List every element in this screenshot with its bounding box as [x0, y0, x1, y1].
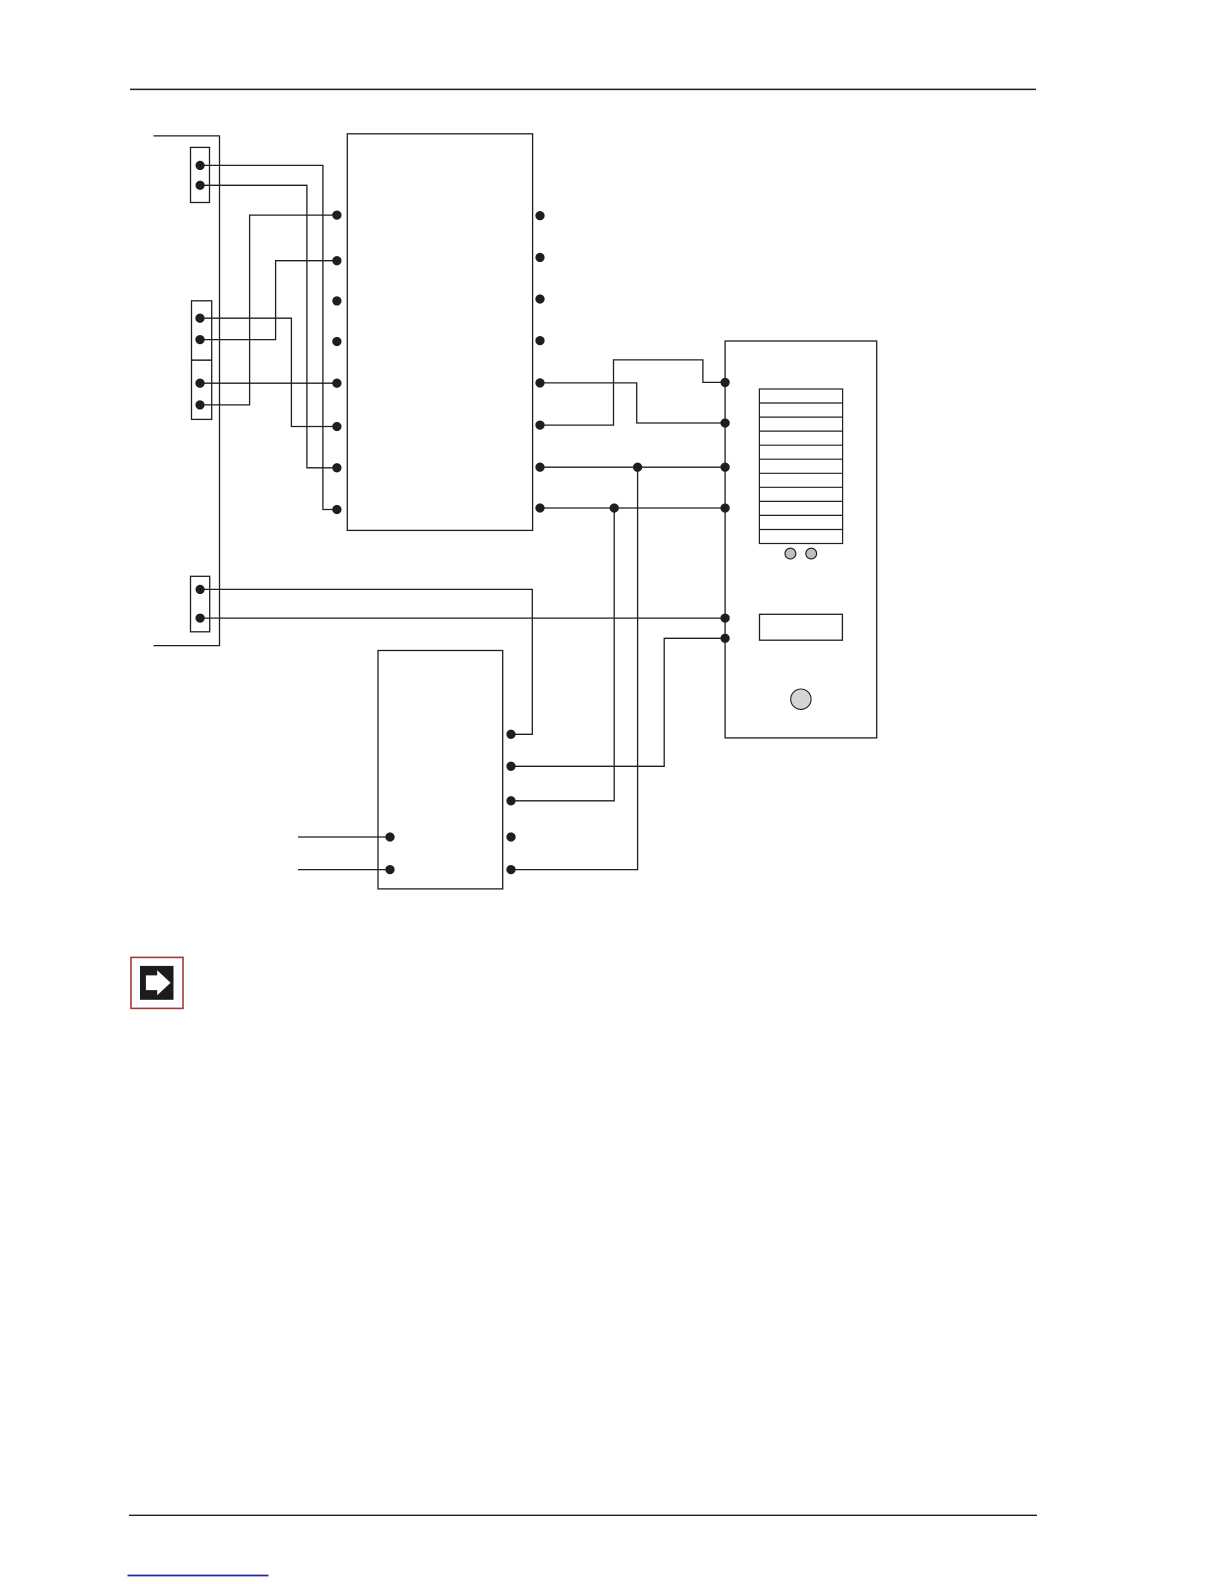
- panel pin P1: [721, 378, 729, 386]
- indicator LED 1: [785, 548, 796, 559]
- wiring bus bracket: [154, 136, 220, 646]
- pin J2-2: [196, 336, 204, 344]
- indicator LED 2: [806, 548, 817, 559]
- module U1: [347, 134, 532, 531]
- U1 pin L8: [333, 506, 341, 514]
- footer link underline: [128, 1575, 269, 1577]
- U1 pin L6: [333, 423, 341, 431]
- panel pin P4: [721, 504, 729, 512]
- note icon arrow: [140, 966, 174, 1000]
- junction node A: [634, 463, 642, 471]
- pin J3-1: [196, 379, 204, 387]
- pin J1-2: [196, 181, 204, 189]
- module U2: [378, 651, 503, 889]
- U1 pin L1: [333, 211, 341, 219]
- U1 pin R4: [536, 337, 544, 345]
- U1 pin L5: [333, 379, 341, 387]
- wire U1 pin L1 to J3-2: [200, 215, 337, 405]
- U1 pin R6: [536, 421, 544, 429]
- wire U1 pin R8 to panel pin P4: [540, 507, 725, 509]
- wire U1 pin R7 to panel pin P3: [540, 466, 725, 468]
- wire J1-1 to U1 pin L8: [200, 165, 337, 509]
- U2 pin R2: [507, 762, 515, 770]
- pin J2-1: [196, 314, 204, 322]
- U1 pin R2: [536, 253, 544, 261]
- panel pin P5: [721, 614, 729, 622]
- panel pin P3: [721, 463, 729, 471]
- U1 pin R8: [536, 504, 544, 512]
- wire J1-2 to U1 pin L7: [200, 185, 337, 468]
- connector J3: [192, 360, 212, 419]
- U1 pin L3: [333, 297, 341, 305]
- header rule: [130, 88, 1036, 90]
- U1 pin R7: [536, 463, 544, 471]
- wire J2-1 to U1 pin L6: [200, 318, 337, 426]
- connector J4: [191, 576, 210, 632]
- wire J4-2 to panel pin P5: [200, 617, 725, 619]
- wire U2 pin R2 to panel pin P6: [511, 638, 725, 766]
- junction node B: [610, 504, 618, 512]
- U2 pin R4: [507, 833, 515, 841]
- speaker grille: [759, 389, 842, 544]
- U2 pin R3: [507, 797, 515, 805]
- wire junction node A to U2 pin R5: [511, 467, 638, 869]
- pin J4-2: [196, 614, 204, 622]
- U1 pin L7: [333, 464, 341, 472]
- U2 pin R1: [507, 730, 515, 738]
- panel pin P6: [721, 634, 729, 642]
- stub wire to U2 pin L2: [298, 869, 390, 871]
- display window: [760, 614, 843, 640]
- stub wire to U2 pin L1: [298, 836, 390, 838]
- footer rule: [129, 1514, 1037, 1516]
- U1 pin R5: [536, 379, 544, 387]
- note icon frame: [131, 957, 183, 1008]
- wire junction node B to U2 pin R3: [511, 508, 614, 801]
- U1 pin L2: [333, 257, 341, 265]
- wire U1 pin R5 to panel pin P2: [540, 383, 725, 423]
- U2 pin L2: [386, 866, 394, 874]
- U1 pin R1: [536, 212, 544, 220]
- pin J4-1: [196, 585, 204, 593]
- wire J4-1 to U2 pin R1: [200, 589, 532, 734]
- wire J3-1 to U1 pin L5: [200, 382, 337, 384]
- panel pin P2: [721, 419, 729, 427]
- wire U1 pin L2 to J2-2: [200, 261, 337, 340]
- control panel: [725, 341, 877, 738]
- pin J3-2: [196, 401, 204, 409]
- U2 pin L1: [386, 833, 394, 841]
- wire U1 pin R6 to panel pin P1: [540, 360, 725, 425]
- connector J2: [192, 301, 212, 360]
- pin J1-1: [196, 161, 204, 169]
- call button: [791, 689, 811, 709]
- U1 pin L4: [333, 338, 341, 346]
- U2 pin R5: [507, 866, 515, 874]
- U1 pin R3: [536, 295, 544, 303]
- connector J1: [191, 147, 210, 202]
